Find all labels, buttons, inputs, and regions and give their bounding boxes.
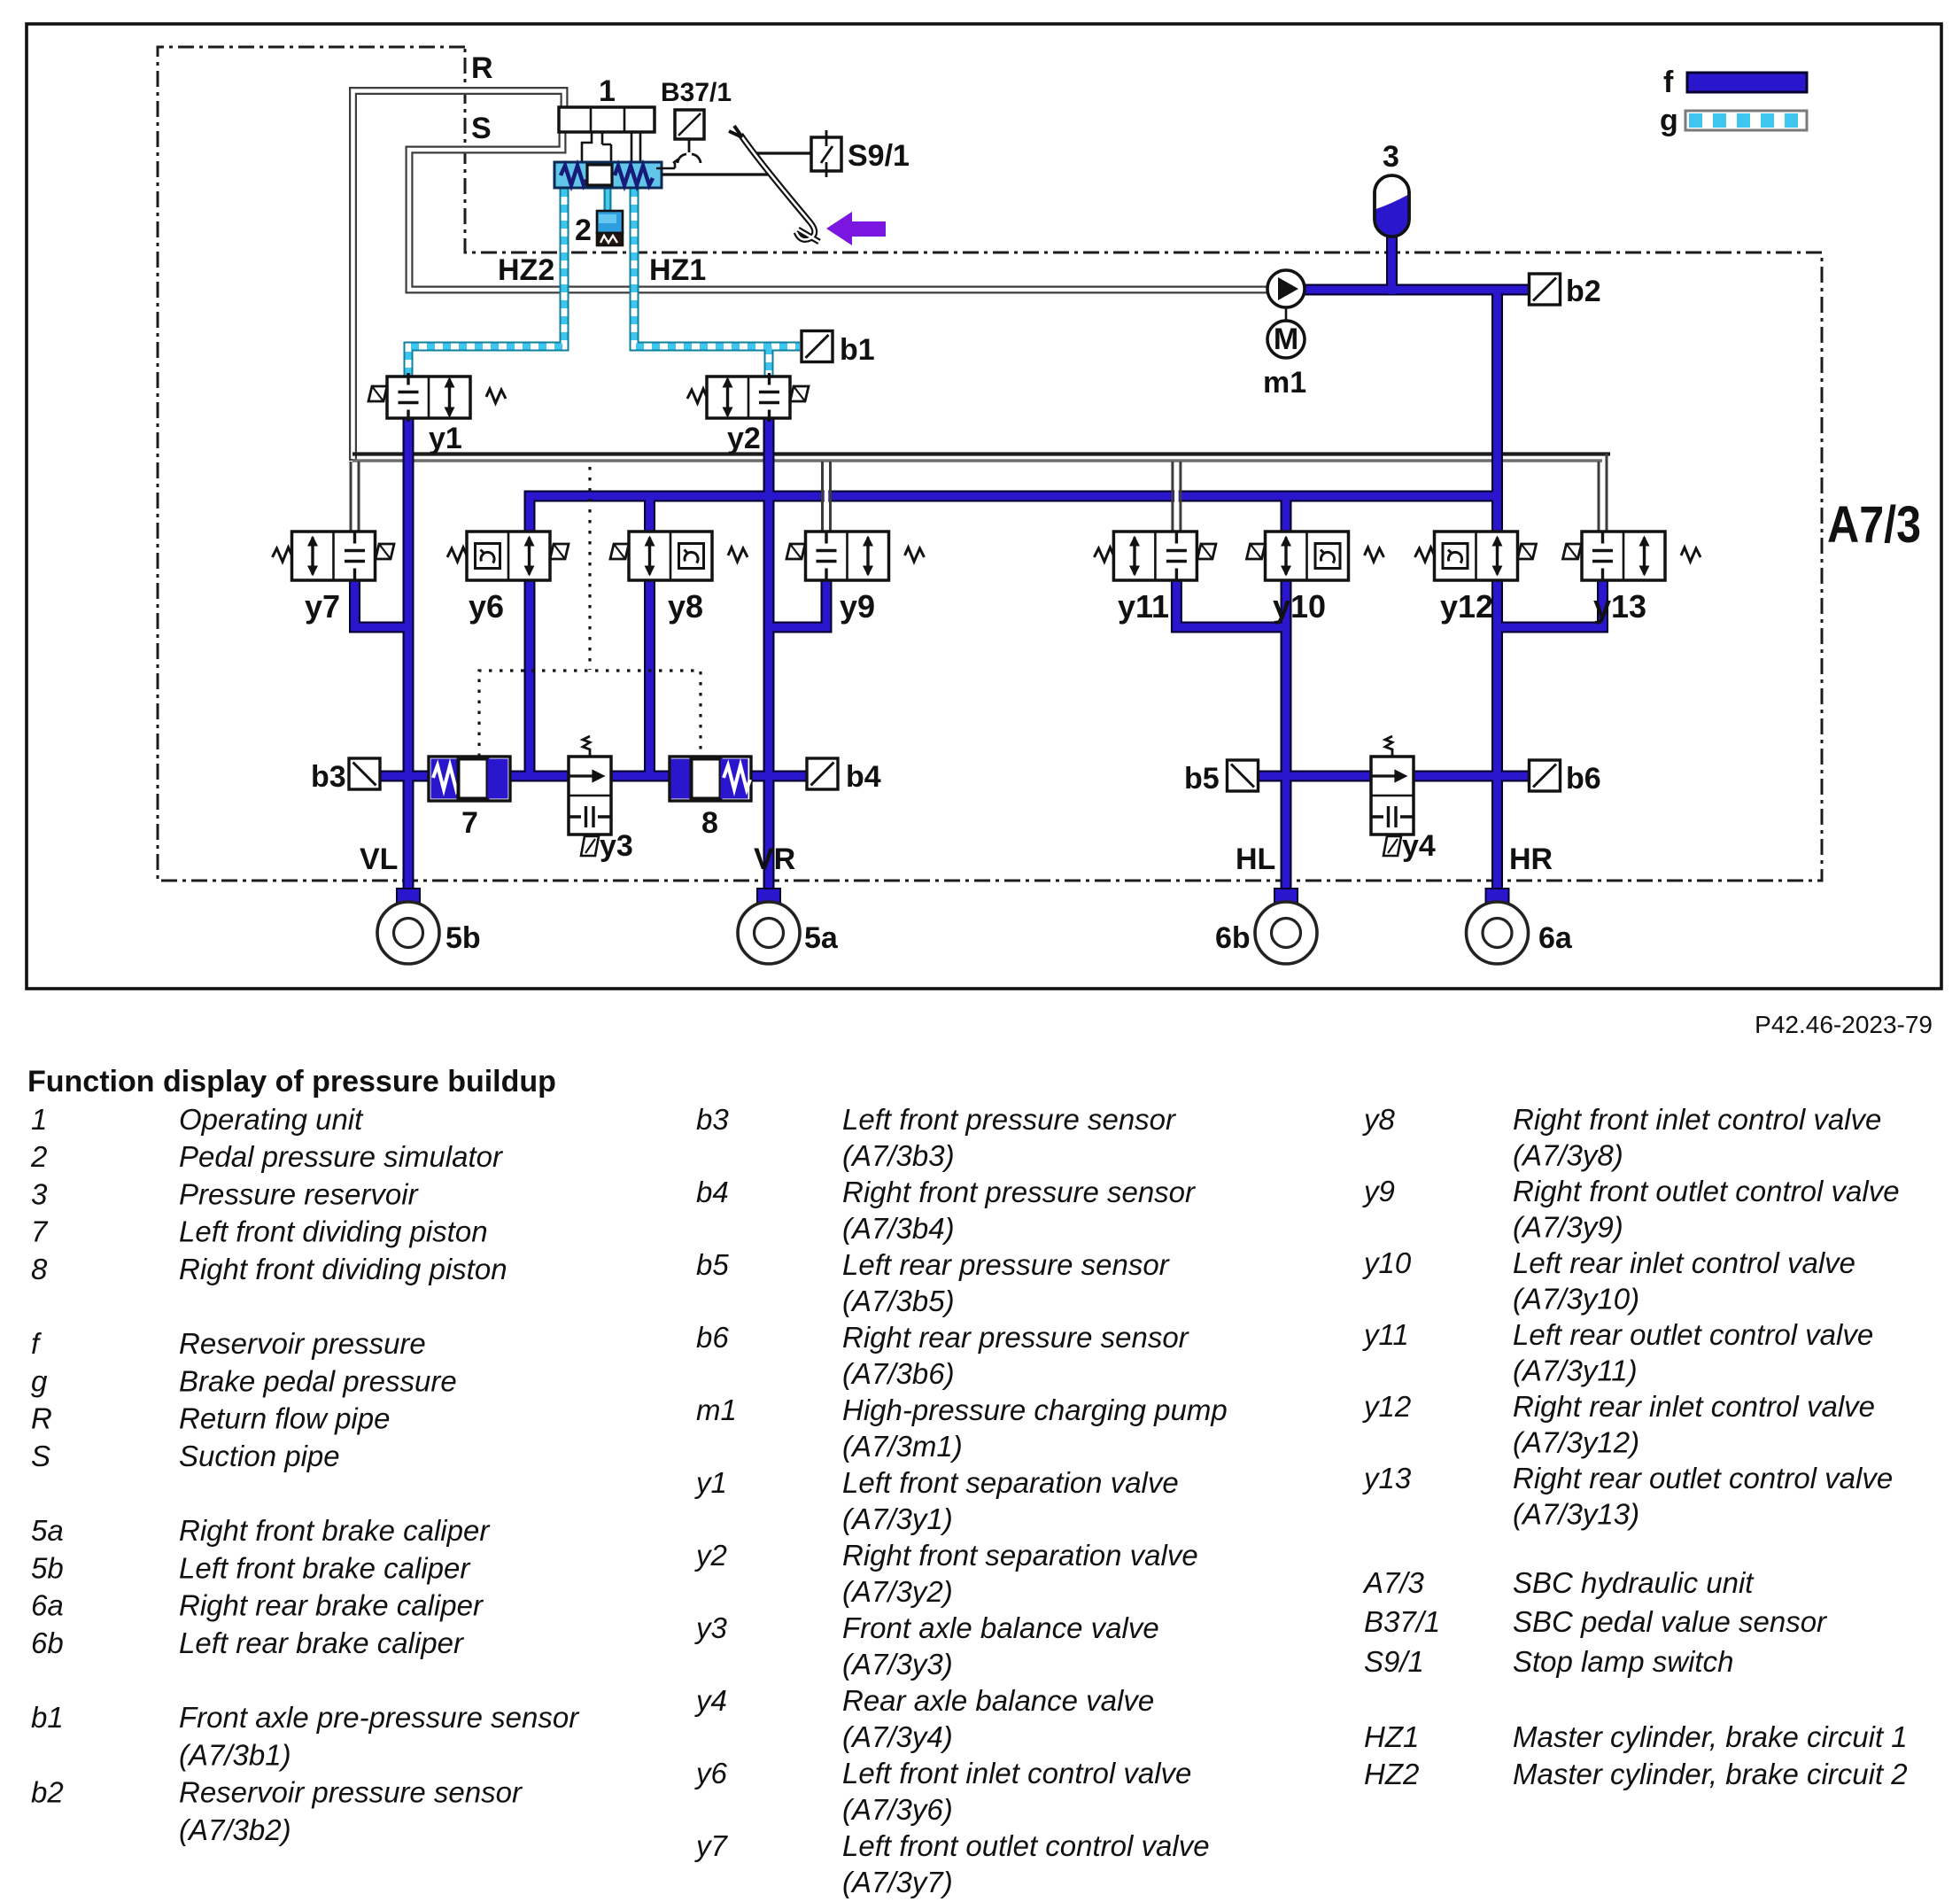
valve y6 <box>447 532 569 580</box>
svg-text:y11: y11 <box>1118 588 1169 625</box>
svg-text:y6: y6 <box>469 588 504 625</box>
pressure reservoir 3 (accumulator) <box>1375 175 1409 237</box>
svg-text:B37/1: B37/1 <box>1364 1605 1440 1638</box>
svg-text:Stop lamp switch: Stop lamp switch <box>1513 1645 1733 1678</box>
svg-text:2: 2 <box>575 213 592 247</box>
wheel 6a <box>1467 889 1529 964</box>
wire rear axle row left (b5 to y4) <box>1259 771 1373 782</box>
svg-text:b6: b6 <box>1566 762 1601 796</box>
svg-text:8: 8 <box>31 1253 48 1285</box>
svg-text:HL: HL <box>1236 842 1275 876</box>
operating unit reservoir 1 <box>559 107 655 132</box>
svg-text:b3: b3 <box>311 760 346 794</box>
svg-text:(A7/3y12): (A7/3y12) <box>1513 1426 1639 1459</box>
svg-text:Right front dividing piston: Right front dividing piston <box>179 1253 507 1285</box>
svg-text:Pressure reservoir: Pressure reservoir <box>179 1177 420 1210</box>
wire rear axle row right (y4 to b6) <box>1412 771 1529 782</box>
wire pump to sensor b2 (pressure line) <box>1304 284 1530 296</box>
svg-text:Brake pedal pressure: Brake pedal pressure <box>179 1364 457 1397</box>
svg-text:y2: y2 <box>694 1539 727 1572</box>
svg-text:6a: 6a <box>1538 921 1573 955</box>
pedal pressure simulator 2 <box>597 211 623 245</box>
svg-text:g: g <box>1660 104 1678 137</box>
svg-text:y4: y4 <box>694 1684 727 1717</box>
wire valve y13 outlet elbow <box>1498 576 1603 627</box>
wire center reference dotted line <box>588 467 591 670</box>
pressure sensor b6 <box>1530 760 1561 791</box>
svg-text:Right front inlet control valv: Right front inlet control valve <box>1513 1103 1881 1136</box>
svg-text:2: 2 <box>30 1140 47 1173</box>
wire HR main line (b2 junction to wheel 6a) <box>1491 290 1503 900</box>
pushrod master cylinder to pedal <box>662 173 772 175</box>
wire VL line (valve y1 to wheel 5b) <box>403 381 414 900</box>
svg-text:1: 1 <box>31 1103 47 1136</box>
svg-text:P42.46-2023-79: P42.46-2023-79 <box>1755 1011 1933 1038</box>
svg-text:Front axle balance valve: Front axle balance valve <box>842 1611 1159 1644</box>
svg-text:Left front outlet control valv: Left front outlet control valve <box>842 1829 1210 1862</box>
svg-text:(A7/3y1): (A7/3y1) <box>842 1502 953 1535</box>
svg-text:Function display of pressure b: Function display of pressure buildup <box>27 1065 556 1099</box>
legend g (brake pedal pressure) <box>1660 104 1807 137</box>
svg-text:Right front outlet control val: Right front outlet control valve <box>1513 1175 1900 1207</box>
svg-text:(A7/3b2): (A7/3b2) <box>179 1813 291 1846</box>
svg-text:S9/1: S9/1 <box>848 139 910 173</box>
wire front axle piston row left <box>380 771 570 782</box>
svg-text:y1: y1 <box>694 1466 727 1499</box>
svg-text:(A7/3y11): (A7/3y11) <box>1513 1355 1638 1387</box>
svg-text:y7: y7 <box>305 588 340 625</box>
svg-text:Suction pipe: Suction pipe <box>179 1440 340 1472</box>
svg-text:Right rear pressure sensor: Right rear pressure sensor <box>842 1321 1190 1354</box>
svg-text:Operating unit: Operating unit <box>179 1103 364 1136</box>
svg-text:(A7/3m1): (A7/3m1) <box>842 1430 963 1463</box>
svg-text:Left front pressure sensor: Left front pressure sensor <box>842 1103 1177 1136</box>
wire return manifold <box>352 454 1610 462</box>
svg-text:b5: b5 <box>696 1248 729 1281</box>
svg-text:5a: 5a <box>31 1514 64 1547</box>
svg-text:Left front dividing piston: Left front dividing piston <box>179 1215 488 1248</box>
wire valve y9 outlet elbow <box>769 576 826 627</box>
blue pipe junction overlay <box>355 233 1603 900</box>
svg-text:5a: 5a <box>804 921 839 955</box>
svg-text:Master cylinder, brake circuit: Master cylinder, brake circuit 2 <box>1513 1758 1908 1790</box>
valve y11 <box>1094 532 1216 580</box>
svg-text:g: g <box>31 1364 48 1397</box>
svg-text:HZ1: HZ1 <box>649 253 706 287</box>
brake pedal <box>729 126 819 242</box>
svg-text:y13: y13 <box>1362 1462 1412 1494</box>
svg-text:b2: b2 <box>1566 275 1601 308</box>
svg-text:7: 7 <box>31 1215 49 1248</box>
pump m1 <box>1267 270 1305 321</box>
svg-text:VL: VL <box>360 842 398 876</box>
valve y12 <box>1415 532 1537 580</box>
A7/3 unit boundary (dash-dot) <box>158 47 1822 881</box>
svg-text:(A7/3b6): (A7/3b6) <box>842 1357 955 1390</box>
reservoir to master cylinder connectors <box>582 132 640 165</box>
legend f (reservoir pressure) <box>1663 66 1807 99</box>
link pedal to stop lamp switch <box>755 151 811 154</box>
svg-text:Reservoir pressure sensor: Reservoir pressure sensor <box>179 1776 523 1809</box>
svg-text:(A7/3y4): (A7/3y4) <box>842 1720 953 1753</box>
svg-text:5b: 5b <box>445 921 481 955</box>
wire HL main line (bus to wheel 6b) <box>1281 496 1292 900</box>
svg-text:(A7/3y6): (A7/3y6) <box>842 1793 953 1826</box>
pressure sensor b3 <box>349 758 380 789</box>
svg-text:y13: y13 <box>1593 588 1646 625</box>
valve y9 <box>786 532 925 580</box>
svg-text:(A7/3y10): (A7/3y10) <box>1513 1283 1639 1316</box>
wire return stub to valve y13 <box>1599 454 1607 532</box>
valve y2 <box>687 373 809 422</box>
svg-text:(A7/3y9): (A7/3y9) <box>1513 1211 1623 1244</box>
svg-text:Reservoir pressure: Reservoir pressure <box>179 1327 426 1360</box>
svg-text:Front axle pre-pressure sensor: Front axle pre-pressure sensor <box>179 1701 580 1734</box>
wheel 6b <box>1255 889 1317 964</box>
wire return stub to valve y9 <box>823 462 831 532</box>
wire pressure bus with drop to valve y6 <box>530 496 1498 567</box>
pressure sensor b5 <box>1228 760 1259 791</box>
wire piston linkage dashed <box>479 671 701 757</box>
svg-text:m1: m1 <box>696 1394 737 1426</box>
svg-text:b2: b2 <box>31 1776 64 1809</box>
svg-text:b4: b4 <box>846 760 881 794</box>
link B37/1 to master cylinder <box>656 163 675 168</box>
wire HZ1 line (cyan dashed) <box>634 189 800 379</box>
svg-text:b3: b3 <box>696 1103 729 1136</box>
svg-text:Rear axle balance valve: Rear axle balance valve <box>842 1684 1154 1717</box>
svg-text:y9: y9 <box>1362 1175 1395 1207</box>
valve y1 <box>368 373 506 422</box>
valve y13 <box>1563 532 1701 580</box>
svg-text:y1: y1 <box>429 422 462 455</box>
svg-text:Left rear inlet control valve: Left rear inlet control valve <box>1513 1246 1855 1279</box>
svg-text:b1: b1 <box>840 333 875 367</box>
svg-text:HR: HR <box>1509 842 1553 876</box>
svg-text:Right front separation valve: Right front separation valve <box>842 1539 1198 1572</box>
svg-text:A7/3: A7/3 <box>1362 1566 1425 1599</box>
svg-text:y12: y12 <box>1440 588 1493 625</box>
svg-text:Right rear inlet control valve: Right rear inlet control valve <box>1513 1390 1875 1423</box>
svg-text:(A7/3y2): (A7/3y2) <box>842 1575 953 1608</box>
svg-text:Left front inlet control valve: Left front inlet control valve <box>842 1757 1191 1789</box>
balance valve y3 <box>569 736 611 856</box>
svg-text:Left front separation valve: Left front separation valve <box>842 1466 1179 1499</box>
svg-text:Right rear outlet control valv: Right rear outlet control valve <box>1513 1462 1893 1494</box>
wire master cylinder to pedal simulator <box>604 188 612 213</box>
svg-text:y11: y11 <box>1362 1318 1409 1351</box>
svg-text:(A7/3b1): (A7/3b1) <box>179 1738 291 1771</box>
master cylinder HZ1/HZ2 <box>554 162 662 188</box>
pressure sensor b1 <box>802 331 833 362</box>
svg-text:8: 8 <box>701 806 718 840</box>
svg-text:HZ1: HZ1 <box>1364 1720 1419 1753</box>
svg-text:Master cylinder, brake circuit: Master cylinder, brake circuit 1 <box>1513 1720 1908 1753</box>
svg-text:S: S <box>31 1440 50 1472</box>
motor M <box>1267 321 1305 358</box>
pressure sensor b2 <box>1530 274 1561 305</box>
pedal value sensor B37/1 <box>673 110 704 163</box>
wire HZ2 line (cyan dashed) <box>408 189 564 379</box>
svg-text:f: f <box>1663 66 1674 99</box>
svg-text:Left rear outlet control valve: Left rear outlet control valve <box>1513 1318 1873 1351</box>
wire valve y8 line (bus to piston row) <box>644 496 655 776</box>
svg-text:S: S <box>471 112 492 145</box>
svg-text:y3: y3 <box>600 829 633 863</box>
svg-text:M: M <box>1274 322 1298 356</box>
svg-text:y8: y8 <box>668 588 703 625</box>
svg-text:y2: y2 <box>727 422 761 455</box>
svg-text:y3: y3 <box>694 1611 728 1644</box>
svg-text:SBC hydraulic unit: SBC hydraulic unit <box>1513 1566 1755 1599</box>
wire return stub to valve y7 <box>351 462 359 532</box>
svg-text:Left rear pressure sensor: Left rear pressure sensor <box>842 1248 1171 1281</box>
pressure sensor b4 <box>807 758 838 789</box>
wire front axle piston row right <box>609 771 807 782</box>
wire valve y7 outlet elbow <box>355 576 409 627</box>
outer frame <box>27 24 1941 989</box>
svg-text:5b: 5b <box>31 1551 64 1584</box>
svg-text:y6: y6 <box>694 1757 728 1789</box>
svg-text:y9: y9 <box>840 588 875 625</box>
svg-text:Pedal pressure simulator: Pedal pressure simulator <box>179 1140 504 1173</box>
wire accumulator stem <box>1386 233 1398 294</box>
svg-text:(A7/3y8): (A7/3y8) <box>1513 1139 1623 1172</box>
svg-text:(A7/3b4): (A7/3b4) <box>842 1212 955 1245</box>
wire R return pipe (reservoir loop) <box>353 91 565 462</box>
svg-text:y4: y4 <box>1402 829 1436 863</box>
svg-text:VR: VR <box>754 842 795 876</box>
svg-text:HZ2: HZ2 <box>1364 1758 1419 1790</box>
svg-text:b6: b6 <box>696 1321 729 1354</box>
balance valve y4 <box>1371 736 1414 856</box>
svg-text:(A7/3b3): (A7/3b3) <box>842 1139 955 1172</box>
svg-text:Right front brake caliper: Right front brake caliper <box>179 1514 491 1547</box>
svg-text:7: 7 <box>461 806 478 840</box>
svg-text:y10: y10 <box>1273 588 1326 625</box>
wire S suction pipe to pump <box>409 133 1269 290</box>
svg-text:y7: y7 <box>694 1829 729 1862</box>
svg-text:Right rear brake caliper: Right rear brake caliper <box>179 1589 484 1622</box>
svg-text:y8: y8 <box>1362 1103 1396 1136</box>
svg-text:3: 3 <box>1383 140 1399 174</box>
svg-text:Left rear brake caliper: Left rear brake caliper <box>179 1626 465 1659</box>
wire valve y11 outlet elbow <box>1176 576 1286 627</box>
wire VR line (valve y2 to wheel 5a) <box>763 381 775 900</box>
actuation arrow (purple) <box>826 212 886 245</box>
valve y8 <box>610 532 748 580</box>
svg-text:b4: b4 <box>696 1176 729 1208</box>
svg-text:S9/1: S9/1 <box>1364 1645 1424 1678</box>
svg-text:Return flow pipe: Return flow pipe <box>179 1402 390 1435</box>
svg-text:b5: b5 <box>1184 762 1220 796</box>
wire valve y6 lower line to piston row <box>524 567 536 776</box>
valve y10 <box>1247 532 1384 580</box>
svg-text:A7/3: A7/3 <box>1827 496 1921 554</box>
dividing piston 7 <box>429 757 510 801</box>
svg-text:y12: y12 <box>1362 1390 1411 1423</box>
svg-text:R: R <box>471 51 493 85</box>
svg-text:R: R <box>31 1402 52 1435</box>
wheel 5a <box>738 889 800 964</box>
svg-text:y10: y10 <box>1362 1246 1412 1279</box>
svg-text:(A7/3y3): (A7/3y3) <box>842 1648 953 1681</box>
svg-text:HZ2: HZ2 <box>498 253 554 287</box>
svg-text:m1: m1 <box>1263 366 1306 400</box>
valve y7 <box>273 532 395 580</box>
wheel 5b <box>377 889 439 964</box>
svg-text:(A7/3b5): (A7/3b5) <box>842 1285 955 1317</box>
svg-text:6b: 6b <box>31 1626 64 1659</box>
svg-text:High-pressure charging pump: High-pressure charging pump <box>842 1394 1228 1426</box>
svg-text:Right front pressure sensor: Right front pressure sensor <box>842 1176 1197 1208</box>
svg-text:b1: b1 <box>31 1701 64 1734</box>
svg-text:Left front brake caliper: Left front brake caliper <box>179 1551 471 1584</box>
svg-text:SBC pedal value sensor: SBC pedal value sensor <box>1513 1605 1828 1638</box>
svg-text:(A7/3y13): (A7/3y13) <box>1513 1498 1639 1531</box>
dividing piston 8 <box>670 757 751 801</box>
wire return stub to valve y11 <box>1173 462 1181 532</box>
svg-text:(A7/3y7): (A7/3y7) <box>842 1866 953 1898</box>
svg-text:6a: 6a <box>31 1589 64 1622</box>
svg-text:1: 1 <box>599 74 616 108</box>
svg-text:6b: 6b <box>1215 921 1251 955</box>
svg-text:B37/1: B37/1 <box>661 78 732 107</box>
stop lamp switch S9/1 <box>811 130 841 177</box>
svg-text:3: 3 <box>31 1177 48 1210</box>
